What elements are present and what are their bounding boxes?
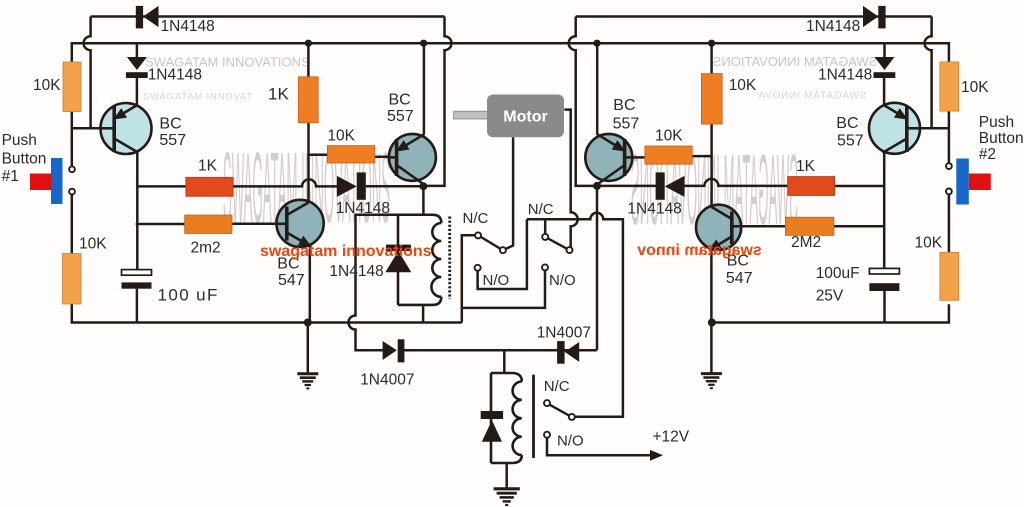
transistor Q4 BC557 outer-right PNP: [869, 103, 921, 154]
switch SW5 N/O contact circle: [544, 432, 550, 438]
motor M1: [454, 95, 564, 138]
wire Q5 collector up to 1K vertical resistor: [307, 123, 310, 202]
svg-text:10K: 10K: [961, 79, 989, 96]
wire motor bottom terminal to SW1 common: [506, 137, 513, 249]
switch SW1 common contact circle: [500, 247, 506, 253]
svg-text:557: 557: [159, 132, 186, 149]
wire C1 bottom to ground rail: [136, 289, 139, 323]
svg-text:10K: 10K: [655, 128, 683, 145]
switch SW1 N/O contact circle: [475, 265, 481, 271]
resistor R11 1K horizontal right: [788, 177, 835, 196]
wire ground symbol stem right: [710, 323, 713, 373]
diode D10 1N4148 inside RL3 pointing up: [481, 411, 503, 442]
wire W1L left vertical with hop over supply rail, down to Q1 base node: [84, 17, 91, 129]
wire Q1 base line: [72, 127, 101, 130]
wire Q4 emitter up to D4: [883, 78, 886, 107]
wire node C to D5 anode: [597, 185, 657, 188]
capacitor C2 100uF right: [869, 268, 899, 291]
svg-text:557: 557: [837, 133, 864, 150]
svg-text:1N4007: 1N4007: [537, 325, 591, 342]
svg-text:+12V: +12V: [653, 429, 690, 446]
switch SW5 common contact circle: [569, 414, 575, 420]
ground symbol left: [297, 374, 318, 389]
svg-text:1K: 1K: [198, 158, 218, 175]
svg-text:N/C: N/C: [544, 378, 570, 395]
diode D6 1N4148 top-right pointing right: [863, 6, 886, 29]
wire 2m2 to Q5 base: [232, 223, 288, 226]
svg-text:N/O: N/O: [483, 272, 510, 289]
wire Q1 collector down to ground rail (through 1K,2m2 taps and C1): [136, 152, 139, 270]
transistor Q3 BC557 inner-right PNP: [585, 134, 633, 185]
diode D5 1N4148 horizontal right pointing left: [656, 172, 685, 199]
svg-text:BC: BC: [836, 115, 858, 132]
wire RL1 top edge extension and left leg with hop over ground rail, to D7: [349, 215, 433, 350]
svg-text:BC: BC: [613, 97, 635, 114]
resistor R9 10K vertical right: [701, 74, 722, 125]
wire W1L right vertical with hop, down to Q2 collector node: [423, 17, 451, 186]
wire RL3 coil bottom to ground: [505, 463, 508, 488]
push button PB2 red cap: [969, 174, 991, 191]
svg-text:10K: 10K: [33, 77, 61, 94]
wire W1R left vertical with hop, down to Q3 collector node: [569, 17, 597, 186]
svg-text:10K: 10K: [327, 128, 355, 145]
svg-text:547: 547: [278, 272, 305, 289]
svg-text:1K: 1K: [796, 158, 816, 175]
push button PB2 contact circles: [946, 163, 952, 169]
resistor R12 2M2 right: [785, 217, 834, 235]
resistor R8 10K bottom-right: [940, 252, 959, 300]
svg-text:10K: 10K: [729, 77, 757, 94]
svg-text:10K: 10K: [79, 236, 107, 253]
svg-text:N/C: N/C: [463, 210, 489, 227]
wire D3 cathode to node A: [366, 185, 424, 188]
switch SW2 N/O contact circle: [542, 264, 548, 270]
relay RL3 core solid line: [532, 375, 535, 458]
switch SW5 relay RL3 contact: moving arm: [550, 405, 569, 416]
diode D2 1N4148 vertical left pointing down: [126, 57, 148, 78]
switch SW1 N/C contact circle: [475, 232, 481, 238]
wire ground rail left: [72, 304, 462, 323]
wire node A to relay RL1 coil top: [422, 186, 425, 215]
resistor R2 10K bottom-left: [63, 254, 82, 305]
svg-text:10K: 10K: [915, 235, 943, 252]
svg-text:#2: #2: [979, 146, 996, 163]
diode D4 1N4148 vertical right pointing down: [874, 57, 896, 78]
resistor R1 10K top-left: [63, 62, 81, 112]
wire push button 1 to R2: [71, 195, 74, 254]
wire motor right terminal down with hop over node B wire to SW2 common: [564, 110, 577, 248]
svg-text:1K: 1K: [268, 85, 289, 104]
wire 10K vertical right top to W2: [710, 43, 713, 73]
svg-text:1N4007: 1N4007: [360, 372, 414, 389]
ground symbol right: [701, 374, 722, 389]
svg-text:BC: BC: [389, 91, 411, 108]
wire Q3 collector down to 1N4007 line: [596, 186, 599, 350]
svg-text:1N4148: 1N4148: [161, 18, 215, 35]
wire 1N4007 line to RL3 junction and Q3 collector: [403, 349, 596, 352]
wire RL1 coil bottom to ground rail: [422, 305, 425, 323]
svg-text:547: 547: [726, 270, 753, 287]
wire 10K horizontal right lead to Q6 line: [692, 155, 711, 158]
resistor R6 2m2 left: [185, 215, 232, 234]
wire SW2 N/C up to node B: [544, 219, 547, 234]
svg-text:swagatam innov: swagatam innov: [637, 242, 762, 259]
wire push button 2 to R8: [948, 194, 951, 252]
svg-text:1N4148: 1N4148: [336, 200, 390, 217]
wire 1K vertical resistor top to W2: [307, 43, 310, 77]
wire ground symbol stem left: [307, 323, 310, 373]
transistor Q5 BC547 left NPN: [276, 200, 323, 247]
transistor Q1 BC557 outer-left PNP: [100, 103, 152, 154]
diode D1 1N4148 top-left pointing left: [136, 6, 159, 29]
svg-text:100 uF: 100 uF: [158, 286, 219, 305]
push button PB1 blue actuator: [51, 158, 63, 204]
wire SW1 N/O down right and up to node B: [478, 219, 527, 289]
wire 1K horizontal lead left: [137, 185, 186, 188]
wire Q2 emitter up to W2: [423, 43, 426, 135]
wire Q6 base to 2M2: [741, 225, 786, 228]
wire top feedback rail right (W1R): [576, 15, 932, 18]
svg-text:Push: Push: [2, 132, 37, 149]
wire 10K horizontal lead right to Q2 base: [375, 156, 390, 159]
svg-text:N/C: N/C: [528, 201, 554, 218]
wire 10K vertical bottom to Q6 collector: [710, 124, 713, 206]
switch SW2 common contact circle: [567, 247, 573, 253]
svg-text:100uF: 100uF: [816, 265, 860, 282]
svg-text:N/O: N/O: [549, 272, 576, 289]
svg-text:1N4148: 1N4148: [329, 263, 383, 280]
push button PB2 blue actuator: [956, 159, 969, 205]
svg-text:25V: 25V: [816, 288, 844, 305]
wire R1 bottom to Q1 base and push button 1: [71, 112, 74, 167]
svg-text:N/O: N/O: [557, 433, 584, 450]
capacitor C1 100uF left: [122, 270, 152, 289]
wire SW1 N/C contact left and down to ground rail: [462, 235, 475, 322]
wire D4 anode to W2: [883, 43, 886, 58]
wire 1K to D3 with hop over Q5 collector line: [233, 179, 338, 186]
ground symbol bottom: [494, 489, 520, 505]
push button PB1 contact circles: [69, 166, 75, 172]
wire 2M2 right lead to C2 line: [834, 225, 885, 228]
wire Q6 emitter down to ground rail right: [710, 250, 713, 323]
diode D3 1N4148 horizontal left pointing right: [337, 172, 366, 199]
wire ground rail right: [712, 304, 949, 322]
wire Q4 base line: [920, 127, 949, 130]
svg-text:#1: #1: [2, 168, 19, 185]
wire D2 cathode to Q1 emitter: [136, 78, 139, 107]
diode D8 1N4007 right pointing left: [557, 341, 579, 364]
wire D2 anode link from W2: [136, 43, 139, 58]
svg-text:Motor: Motor: [503, 109, 547, 126]
resistor R4 10K horizontal left: [327, 146, 374, 163]
transistor Q2 BC557 inner-left PNP: [389, 134, 436, 185]
wire supply rail W2 across top: [72, 43, 949, 62]
resistor R7 10K top-right: [940, 62, 959, 111]
svg-text:BC: BC: [159, 116, 181, 133]
wire SW5 N/O to +12V arrow: [547, 438, 659, 456]
diode D9 1N4148 inside RL1 pointing up: [385, 245, 411, 273]
relay RL1 core dotted line: [448, 217, 451, 300]
node on W2 at Q3 emitter: [593, 40, 600, 47]
node C Q3 collector junction: [593, 182, 601, 190]
svg-text:1N4148: 1N4148: [818, 67, 872, 84]
node on W2 at 10K vertical top: [708, 40, 715, 47]
wire R7 bottom to Q4 base and push button 2: [948, 111, 951, 163]
wire W1R right vertical with hop, down to Q4 base node: [925, 17, 932, 129]
svg-text:swagatam innovations: swagatam innovations: [260, 243, 432, 260]
node A Q2 collector junction: [419, 182, 427, 190]
wire Q4 collector down through taps to C2: [883, 152, 886, 269]
diode D7 1N4007 left pointing right: [383, 339, 405, 362]
switch SW2 N/C contact circle: [542, 234, 548, 240]
svg-text:1N4148: 1N4148: [806, 18, 860, 35]
node on W2 at 1K vertical top: [305, 40, 312, 47]
switch SW1 relay contact set 1: moving arm: [481, 237, 500, 249]
wire Q5 emitter down to ground rail: [309, 246, 312, 323]
node on W2 at Q2 emitter: [420, 40, 427, 47]
wire 2m2 lead left: [136, 223, 185, 226]
svg-text:557: 557: [613, 116, 640, 133]
wire C2 bottom to ground rail right: [883, 290, 886, 323]
wire node B across with hop over Q3 collector line, down to SW5 common: [527, 213, 623, 417]
wire Q3 base to 10K horizontal: [632, 156, 645, 159]
wire ground link to SW2 N/O: [462, 270, 545, 308]
svg-text:SWAGATAM INNOVAT: SWAGATAM INNOVAT: [143, 92, 253, 103]
transistor Q6 BC547 right NPN: [696, 205, 741, 250]
svg-text:Push: Push: [979, 114, 1014, 131]
switch SW5 N/C contact circle: [544, 400, 550, 406]
svg-text:2m2: 2m2: [191, 240, 221, 257]
push button PB1 red cap: [30, 174, 52, 191]
wire D5 cathode with hop over Q6 collector line to 1K right: [684, 179, 788, 186]
wire 1K right lead to C2 line: [835, 185, 885, 188]
node ground-right junction: [708, 319, 716, 327]
svg-text:2M2: 2M2: [791, 234, 821, 251]
resistor R3 1K vertical left: [298, 77, 318, 123]
svg-text:1N4148: 1N4148: [148, 67, 202, 84]
relay RL1 box with coil: [398, 215, 441, 305]
wire 10K horizontal lead left: [309, 153, 328, 156]
wire Q3 emitter up to W2: [596, 43, 599, 135]
relay RL3 box with coil (bottom): [491, 373, 522, 463]
svg-text:1N4148: 1N4148: [627, 201, 681, 218]
svg-text:SWAGATAM INNOVA: SWAGATAM INNOVA: [758, 91, 867, 102]
node ground-left junction: [304, 319, 312, 327]
svg-text:557: 557: [387, 108, 414, 125]
switch SW2 relay contact set 2: moving arm: [548, 238, 567, 248]
wire RL3 coil top terminal: [503, 350, 506, 373]
resistor R10 10K horizontal right: [645, 146, 692, 164]
wire top feedback rail left (W1L): [91, 15, 445, 18]
resistor R5 1K horizontal left: [186, 177, 233, 196]
svg-text:Button: Button: [2, 151, 47, 168]
svg-text:Button: Button: [979, 130, 1024, 147]
